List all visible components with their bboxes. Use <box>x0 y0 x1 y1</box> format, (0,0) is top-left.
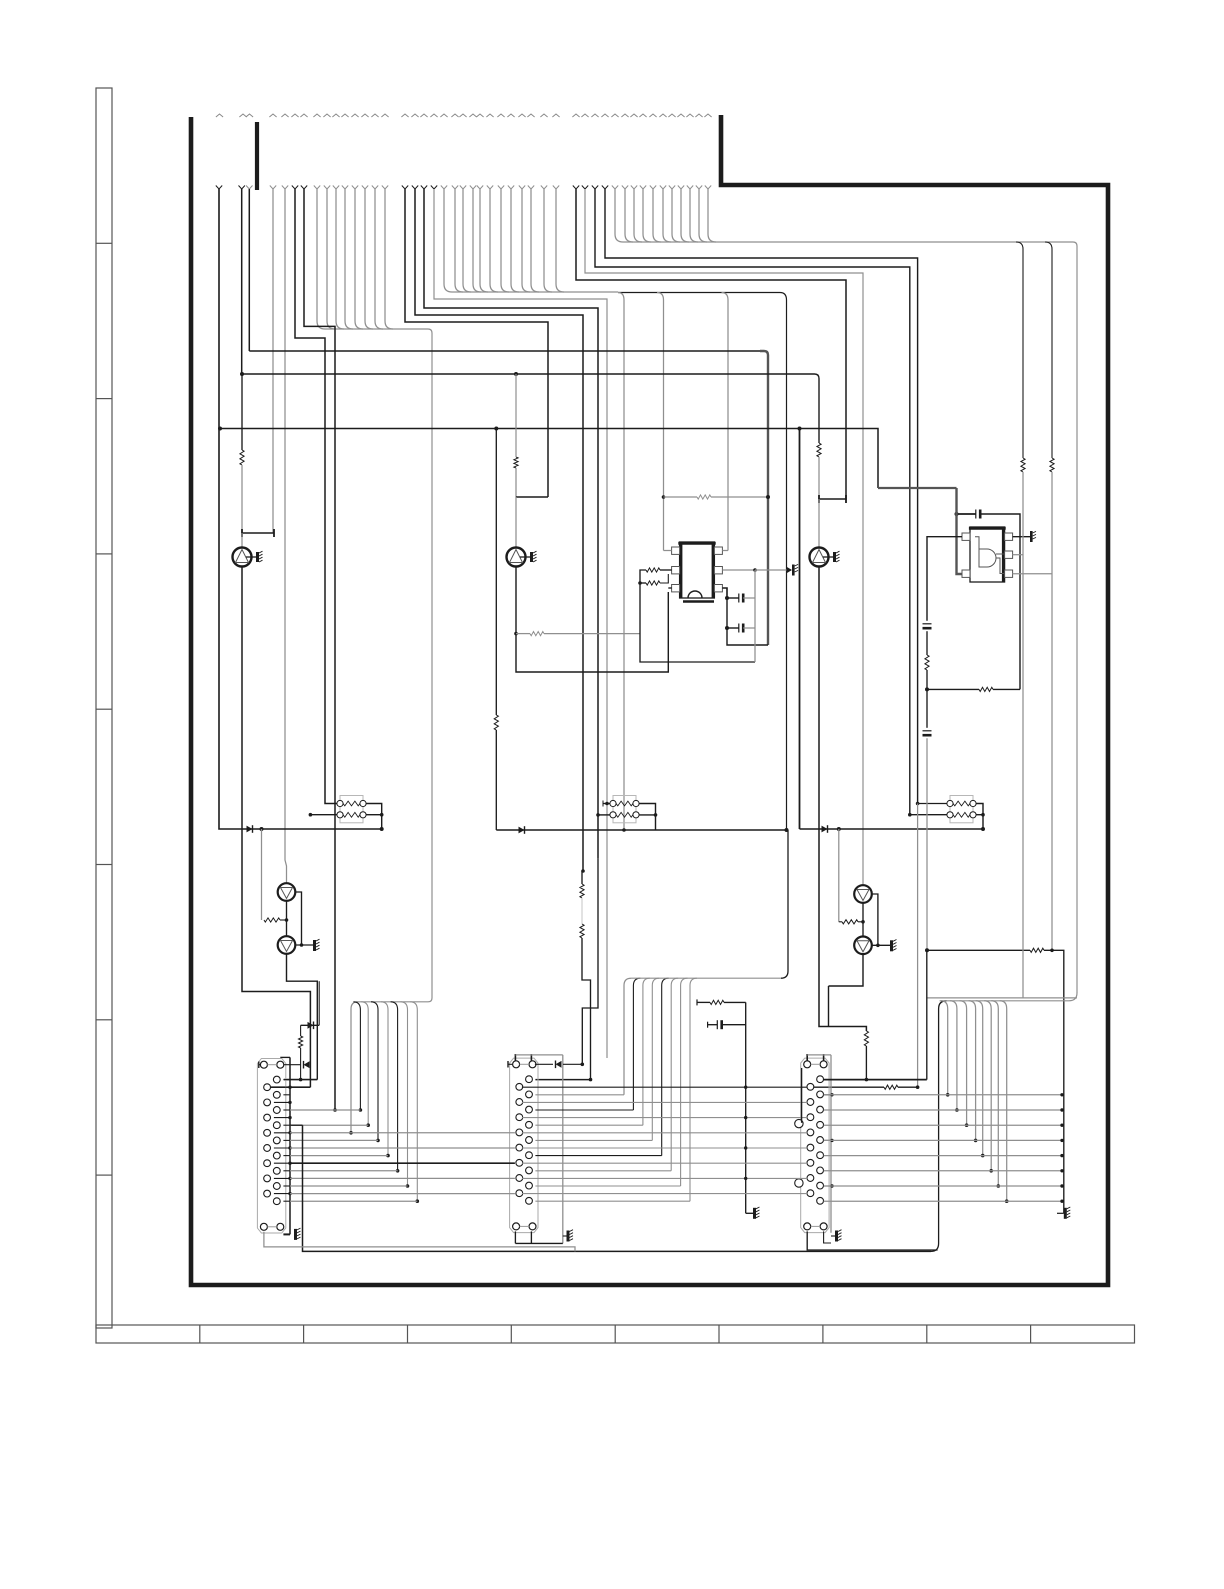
junction <box>1060 1154 1063 1157</box>
strip divider <box>1030 1325 1032 1343</box>
off-page arrow <box>704 114 711 117</box>
off-page arrow <box>323 114 330 117</box>
wire <box>280 1056 290 1058</box>
strip divider <box>96 242 112 244</box>
off-page arrow <box>281 114 288 117</box>
junction <box>965 1123 969 1127</box>
wire <box>295 189 337 804</box>
resistor <box>299 1036 303 1048</box>
resistor <box>494 715 498 730</box>
wire arrow <box>372 186 378 190</box>
wire <box>283 1139 290 1141</box>
wire <box>993 688 1020 690</box>
resistor <box>514 457 518 468</box>
wire <box>598 814 610 816</box>
wire <box>957 513 976 515</box>
wire <box>508 1063 512 1065</box>
wire <box>828 986 830 1027</box>
off-page arrow <box>659 114 666 117</box>
wire <box>745 1002 747 1213</box>
junction <box>380 813 384 817</box>
wire arrow <box>431 186 437 190</box>
wire <box>516 567 668 673</box>
wire <box>274 1147 290 1149</box>
resistor <box>817 443 821 457</box>
diode <box>304 1061 310 1069</box>
junction <box>285 918 289 922</box>
wire <box>664 496 698 498</box>
bottom title strip <box>96 1325 1135 1343</box>
wire <box>434 189 607 1058</box>
wire <box>516 496 548 498</box>
wire <box>872 894 878 945</box>
wire arrow <box>705 186 711 190</box>
wire <box>618 293 624 831</box>
wire <box>274 1162 290 1164</box>
wire <box>366 804 382 830</box>
wire <box>818 440 820 443</box>
wire <box>563 1235 567 1237</box>
wire <box>926 738 928 950</box>
wire <box>910 814 947 816</box>
wire arrow <box>470 186 476 190</box>
wire arrow <box>631 186 637 190</box>
wire <box>862 903 864 937</box>
wire <box>810 374 819 440</box>
off-page arrow <box>313 114 320 117</box>
wire <box>801 1068 803 1123</box>
wire <box>931 1001 947 1252</box>
diode <box>556 1061 562 1069</box>
wire <box>927 688 979 690</box>
wire <box>581 898 583 924</box>
wire <box>818 457 820 499</box>
wire <box>618 292 780 294</box>
wire <box>535 1170 671 1172</box>
junction <box>865 1078 869 1082</box>
junction <box>622 828 626 832</box>
junction <box>589 1078 593 1082</box>
tick <box>707 1022 709 1028</box>
junction <box>654 813 658 817</box>
wire arrow <box>270 186 276 190</box>
capacitor <box>923 731 932 735</box>
off-page arrow <box>497 114 504 117</box>
page margin strip <box>96 88 112 1328</box>
wire <box>824 1155 1062 1157</box>
wire <box>640 570 755 662</box>
wire <box>495 429 497 716</box>
wire <box>516 633 530 635</box>
wire <box>515 1054 562 1056</box>
tick <box>602 801 604 807</box>
wire <box>521 189 523 284</box>
strip divider <box>96 708 112 710</box>
wire <box>365 321 373 329</box>
wire <box>531 284 539 292</box>
resistor <box>864 1031 868 1046</box>
wire <box>287 954 318 1080</box>
junction <box>359 1108 363 1112</box>
off-page arrow <box>572 114 579 117</box>
wire <box>364 189 366 321</box>
wire <box>384 189 386 321</box>
tick <box>507 1061 509 1068</box>
wire <box>511 284 519 292</box>
wire <box>824 1200 1062 1202</box>
wire <box>1022 472 1024 998</box>
junction <box>376 1139 380 1143</box>
wire <box>326 189 328 321</box>
wire <box>335 189 337 321</box>
strip divider <box>822 1325 824 1343</box>
off-page arrow <box>246 114 253 117</box>
junction <box>974 1139 978 1143</box>
strip divider <box>510 1325 512 1343</box>
wire <box>284 1079 318 1081</box>
capacitor <box>739 624 743 633</box>
wire <box>283 1233 290 1235</box>
wire <box>831 1235 835 1237</box>
wire <box>374 189 376 321</box>
resistor <box>1021 458 1025 472</box>
wire <box>707 189 709 234</box>
junction <box>240 372 244 376</box>
wire <box>663 234 671 242</box>
junction <box>416 1199 420 1203</box>
wire <box>1069 993 1077 1001</box>
resistor <box>530 632 544 636</box>
wire <box>643 234 651 242</box>
wire <box>336 321 344 329</box>
wire <box>845 495 847 503</box>
wire <box>941 1001 948 1095</box>
wire <box>290 1155 388 1157</box>
strip divider <box>96 398 112 400</box>
wire <box>300 1025 302 1036</box>
wire <box>698 189 700 234</box>
wire <box>490 284 498 292</box>
wire <box>473 284 481 292</box>
wire <box>274 1117 290 1119</box>
resistor <box>697 495 711 499</box>
wire <box>220 429 878 489</box>
wire <box>289 1057 291 1234</box>
wire <box>824 1139 1062 1141</box>
wire <box>722 550 728 552</box>
wire <box>241 533 243 548</box>
wire <box>878 487 957 489</box>
wire <box>743 597 755 599</box>
off-page arrow <box>630 114 637 117</box>
wire <box>926 950 928 1079</box>
junction <box>925 948 929 952</box>
wire <box>830 1055 832 1233</box>
junction <box>744 1116 747 1119</box>
junction <box>1060 1124 1063 1127</box>
wire <box>515 374 517 457</box>
wire <box>241 465 243 533</box>
wire <box>241 374 243 450</box>
wire <box>535 1139 652 1141</box>
wire <box>722 293 729 551</box>
wire <box>452 291 618 293</box>
junction <box>662 495 666 499</box>
IC <box>962 527 1013 582</box>
wire <box>615 234 623 242</box>
junction <box>299 1078 303 1082</box>
junction <box>581 869 585 873</box>
wire arrow <box>333 186 339 190</box>
connector CN right <box>801 1058 829 1233</box>
wire <box>631 977 781 979</box>
wire <box>535 1200 690 1202</box>
junction <box>981 827 985 831</box>
wire <box>781 830 788 978</box>
wire <box>858 921 863 923</box>
wire <box>353 1002 360 1110</box>
wire <box>865 1046 867 1080</box>
junction <box>386 1154 390 1158</box>
wire <box>274 1132 290 1134</box>
wire <box>273 529 275 537</box>
wire <box>274 1193 290 1195</box>
wire <box>976 804 983 830</box>
chassis ground <box>835 1230 842 1242</box>
wire <box>1057 1212 1064 1214</box>
wire <box>544 284 552 292</box>
wire <box>585 189 863 885</box>
wire <box>290 1177 515 1179</box>
wire <box>976 1001 983 1156</box>
junction <box>514 372 518 376</box>
off-page arrow <box>420 114 427 117</box>
wire <box>722 1024 746 1026</box>
chassis ground <box>787 564 799 575</box>
tick <box>530 1054 532 1061</box>
wire <box>818 495 820 503</box>
wire <box>639 814 655 816</box>
wire <box>285 189 287 883</box>
wire <box>366 814 382 816</box>
wire <box>249 350 760 352</box>
wire <box>219 189 244 829</box>
off-page arrow <box>668 114 675 117</box>
wire <box>581 871 583 884</box>
junction <box>744 1146 747 1149</box>
off-page arrow <box>411 114 418 117</box>
off-page arrow <box>476 114 483 117</box>
wire <box>818 499 820 548</box>
wire <box>643 978 650 1125</box>
junction <box>744 1177 747 1180</box>
strip divider <box>614 1325 616 1343</box>
junction <box>908 813 912 817</box>
wire <box>261 829 263 920</box>
LED <box>854 885 872 903</box>
junction <box>288 1101 291 1104</box>
wire <box>283 1079 290 1081</box>
wire arrow <box>382 186 388 190</box>
wire <box>290 1162 515 1164</box>
wire <box>800 828 984 830</box>
junction <box>725 596 729 600</box>
off-page arrow <box>371 114 378 117</box>
junction <box>288 1116 291 1119</box>
wire <box>697 1001 710 1003</box>
wire arrow <box>314 186 320 190</box>
off-page arrow <box>695 114 702 117</box>
wire <box>290 1200 417 1202</box>
off-page arrow <box>239 114 246 117</box>
junction <box>218 427 222 431</box>
junction <box>785 828 789 832</box>
capacitor <box>976 510 980 519</box>
wire <box>455 284 463 292</box>
wire <box>248 189 250 351</box>
off-page arrow <box>649 114 656 117</box>
schematic border <box>191 115 1108 1285</box>
wire <box>824 1079 927 1081</box>
wire <box>385 321 393 329</box>
junction <box>876 944 880 948</box>
wire <box>1045 242 1052 458</box>
tick <box>258 1062 260 1069</box>
wire <box>535 1063 553 1065</box>
wire <box>522 1162 807 1164</box>
wire <box>824 1109 1062 1111</box>
junction <box>288 1131 291 1134</box>
strip divider <box>96 1174 112 1176</box>
junction <box>1005 1199 1009 1203</box>
wire <box>582 858 598 1064</box>
wire <box>660 569 672 571</box>
wire <box>310 814 337 816</box>
wire <box>950 1001 957 1110</box>
wire <box>274 1101 290 1103</box>
junction <box>300 943 304 947</box>
wire <box>824 1231 831 1243</box>
wire <box>668 587 671 589</box>
wire <box>522 1101 807 1103</box>
wire <box>345 321 353 329</box>
junction <box>981 1154 985 1158</box>
wire <box>672 234 680 242</box>
capacitor <box>739 594 743 603</box>
wire <box>259 1064 261 1066</box>
off-page arrow <box>540 114 547 117</box>
wire <box>280 919 287 921</box>
wire <box>969 1001 976 1141</box>
wire <box>472 189 474 284</box>
junction <box>837 827 841 831</box>
wire <box>535 1094 624 1096</box>
chassis ground <box>1064 1207 1071 1219</box>
wire <box>444 284 452 292</box>
wire <box>271 1086 311 1088</box>
wire <box>241 189 243 374</box>
wire <box>824 1094 1062 1096</box>
junction <box>830 1139 833 1142</box>
resistor network <box>337 796 366 823</box>
off-page arrow <box>381 114 388 117</box>
LED <box>278 883 296 901</box>
wire <box>926 631 928 655</box>
wire <box>917 804 919 1088</box>
wire <box>722 569 755 571</box>
wire <box>301 1024 320 1026</box>
junction <box>997 1184 1001 1188</box>
wire <box>358 994 432 1002</box>
wire <box>515 1242 562 1244</box>
junction <box>753 568 757 572</box>
wire arrow <box>696 186 702 190</box>
off-page arrow <box>469 114 476 117</box>
junction <box>989 1169 993 1173</box>
junction <box>349 1131 353 1135</box>
off-page arrow <box>361 114 368 117</box>
wire <box>405 189 548 497</box>
wire <box>681 978 688 1186</box>
tick <box>696 999 698 1005</box>
wire <box>898 1086 918 1088</box>
wire <box>242 373 810 375</box>
resistor <box>1050 458 1054 472</box>
wire <box>1016 242 1023 458</box>
wire arrow <box>498 186 504 190</box>
junction <box>1060 1200 1063 1203</box>
wire <box>754 570 756 662</box>
wire <box>614 189 616 234</box>
wire <box>283 1155 290 1157</box>
wire <box>283 1200 290 1202</box>
wire <box>410 1002 417 1201</box>
wire <box>283 1185 290 1187</box>
wire <box>295 892 301 945</box>
wire <box>510 189 512 284</box>
wire <box>603 803 610 805</box>
wire arrow <box>687 186 693 190</box>
junction <box>406 1184 410 1188</box>
wire arrow <box>519 186 525 190</box>
wire <box>624 189 626 234</box>
resistor <box>580 924 584 938</box>
wire <box>479 189 481 284</box>
wire <box>535 1155 661 1157</box>
wire arrow <box>412 186 418 190</box>
wire <box>264 1232 575 1252</box>
wire <box>318 981 320 1025</box>
junction <box>494 427 498 431</box>
resistor network <box>610 796 639 823</box>
wire <box>991 1001 998 1186</box>
chassis ground <box>567 1230 574 1242</box>
wire <box>727 627 739 629</box>
off-page arrow <box>581 114 588 117</box>
wire <box>290 1132 515 1134</box>
wire <box>926 689 928 727</box>
junction <box>798 427 802 431</box>
wire arrow <box>541 186 547 190</box>
wire <box>819 567 866 1032</box>
wire <box>633 189 635 234</box>
wire <box>514 1231 516 1243</box>
wire <box>463 284 471 292</box>
wire <box>625 234 633 242</box>
junction <box>288 1146 291 1149</box>
off-page arrow <box>601 114 608 117</box>
wire <box>807 1231 937 1250</box>
